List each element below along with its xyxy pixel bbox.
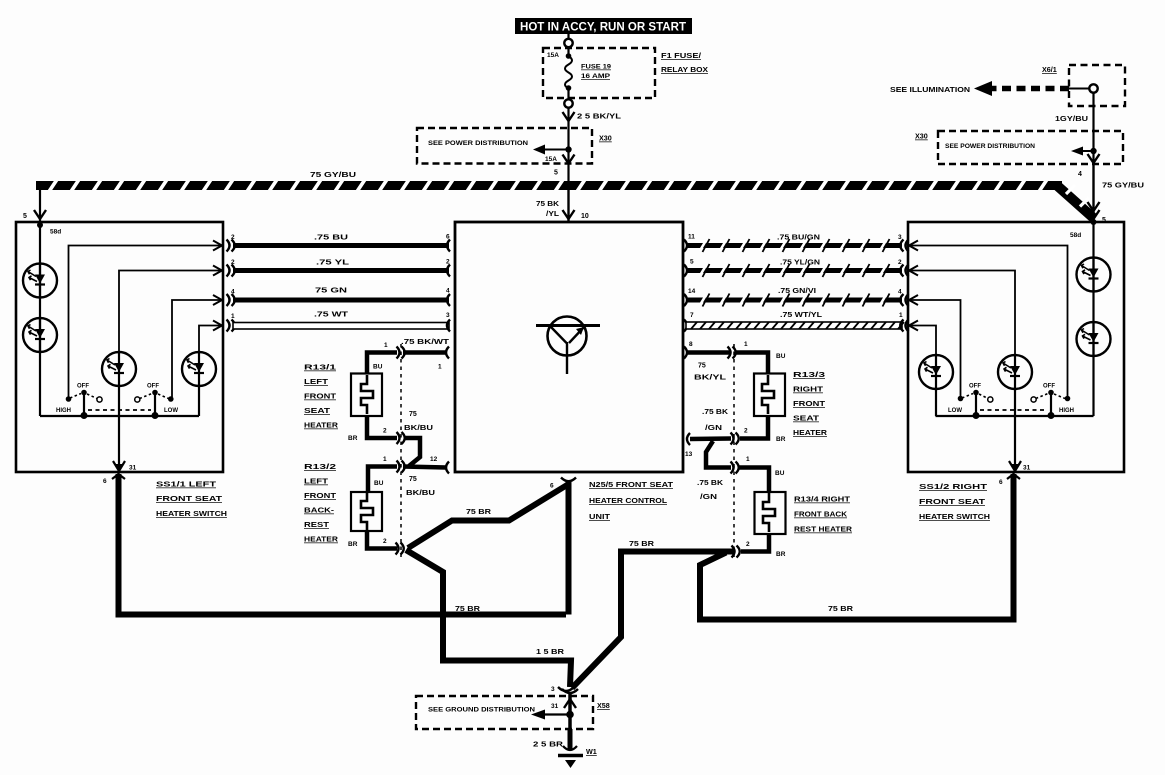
wire left lamp bottom right box: [935, 389, 937, 416]
svg-text:6: 6: [999, 479, 1003, 486]
svg-text:75: 75: [698, 363, 706, 370]
svg-text:1: 1: [438, 364, 442, 371]
lamp right 4 (center): [998, 355, 1032, 389]
svg-text:5: 5: [23, 213, 27, 220]
ground wire 2 5 BR: [568, 729, 573, 750]
wire R13/2 pin1: [368, 461, 405, 493]
svg-text:31: 31: [1023, 465, 1031, 472]
connector X30 right power distribution box (dashed): [938, 131, 1123, 164]
svg-text:75 BR: 75 BR: [629, 541, 654, 548]
svg-text:HIGH: HIGH: [56, 408, 71, 414]
wire R13/3 pin2 to N25/5 pin13: [687, 416, 768, 445]
svg-text:BU: BU: [373, 364, 383, 371]
svg-text:2: 2: [744, 428, 748, 435]
wire N25/5 pin1 to R13/1 pin1 (.75 BK/WT): [367, 347, 449, 375]
ground wire: R13/2 pin2 to ground connector (1 5 BR): [406, 550, 571, 687]
svg-text:.75 WT: .75 WT: [314, 312, 349, 319]
svg-text:HEATER SWITCH: HEATER SWITCH: [919, 514, 990, 521]
svg-text:75: 75: [409, 411, 417, 418]
switch SS1/2 box: [908, 222, 1124, 472]
lamp left 4: [182, 352, 216, 386]
switch HIGH-OFF right: [1031, 390, 1070, 419]
node in X6/1: [1069, 84, 1098, 92]
svg-text:FRONT SEAT: FRONT SEAT: [919, 499, 986, 506]
svg-text:75 BR: 75 BR: [466, 509, 491, 516]
svg-text:1: 1: [383, 456, 387, 463]
svg-text:3: 3: [551, 686, 555, 693]
svg-text:BACK-: BACK-: [304, 508, 335, 515]
svg-text:X58: X58: [597, 701, 610, 710]
wire: main feed vertical, right: [1092, 222, 1094, 416]
svg-text:2: 2: [231, 259, 235, 266]
svg-text:X30: X30: [915, 132, 928, 141]
svg-text:/YL: /YL: [546, 211, 560, 218]
transistor symbol in N25/5: [536, 317, 600, 375]
ground wire: N25/5 pin6 vertical: [561, 478, 576, 615]
svg-text:75 GY/BU: 75 GY/BU: [310, 172, 356, 179]
ground wire: SS1/2 pin6 down and across (75 BR): [700, 474, 1014, 620]
svg-text:BK/YL: BK/YL: [694, 375, 727, 382]
svg-text:3: 3: [898, 234, 902, 241]
svg-text:OFF: OFF: [1043, 384, 1055, 390]
label R13/4 RIGHT FRONT BACK REST HEATER: [794, 497, 852, 534]
svg-text:6: 6: [446, 234, 450, 241]
svg-text:BR: BR: [776, 551, 786, 558]
svg-text:31: 31: [129, 465, 137, 472]
svg-text:12: 12: [430, 456, 438, 463]
svg-text:5: 5: [554, 170, 558, 177]
wire .75 GN (SS1/1 pin4 to N25/5 pin4): [213, 294, 450, 306]
wire: bottom common rail right: [936, 415, 1094, 417]
switch HIGH-OFF: [66, 390, 102, 419]
svg-text:75 BR: 75 BR: [455, 606, 480, 613]
svg-text:HEATER: HEATER: [304, 423, 338, 430]
node: splice in X30 with arrow: [533, 128, 572, 163]
svg-text:.75 GN/VI: .75 GN/VI: [778, 288, 816, 295]
svg-text:2: 2: [383, 538, 387, 545]
mechanical link dashed right: [980, 409, 1047, 411]
svg-text:HOT IN ACCY, RUN OR START: HOT IN ACCY, RUN OR START: [520, 20, 687, 34]
ground connector node 3 above X58: [558, 687, 578, 693]
wire N25/5 pin8 to R13/3 pin1 (.75 BK/YL): [684, 347, 768, 375]
svg-text:.75 BK: .75 BK: [697, 480, 723, 487]
wire .75 BU/GN (N25/5 pin11 to SS1/2 pin3): [684, 240, 918, 252]
svg-text:RELAY BOX: RELAY BOX: [661, 65, 708, 74]
ground wire: R13/4 pin2 to ground connector (75 BR): [572, 552, 735, 689]
wire fuse output 2.5 BK/YL: [564, 90, 572, 128]
svg-text:R13/3: R13/3: [793, 372, 825, 379]
svg-text:RIGHT: RIGHT: [793, 387, 824, 394]
lamp left 3 (center): [102, 352, 136, 386]
node splice in X58 with arrow: [531, 694, 576, 729]
svg-text:LOW: LOW: [948, 408, 962, 414]
wire R13/1 pin2 to N25/5 pin12 (.75 BK/BU): [403, 438, 449, 474]
svg-text:REST: REST: [304, 522, 330, 529]
svg-text:FRONT: FRONT: [793, 401, 826, 408]
svg-text:8: 8: [689, 341, 693, 348]
svg-text:REST HEATER: REST HEATER: [794, 527, 852, 534]
svg-text:2 5 BK/YL: 2 5 BK/YL: [577, 114, 622, 121]
svg-text:SEE POWER DISTRIBUTION: SEE POWER DISTRIBUTION: [945, 143, 1036, 150]
wire R13/1 pin2: [367, 416, 405, 444]
wire R13/2 pin2: [367, 531, 404, 555]
svg-text:FRONT BACK: FRONT BACK: [794, 512, 847, 519]
wire .75 GN/VI (N25/5 pin14 to SS1/2 pin4): [684, 294, 918, 306]
pin 31 arrow SS1/2: [1009, 461, 1021, 472]
ground distribution box X58 (dashed): [416, 696, 593, 729]
resistor R13/4 right front backrest heater: [755, 492, 786, 534]
mechanical link dashed: [88, 409, 151, 411]
svg-text:1: 1: [744, 341, 748, 348]
svg-text:11: 11: [688, 234, 695, 241]
svg-text:LEFT: LEFT: [304, 379, 329, 386]
lamp right 2: [1077, 322, 1111, 356]
svg-text:1: 1: [384, 342, 388, 349]
svg-text:LOW: LOW: [164, 408, 178, 414]
title bar HOT IN ACCY, RUN OR START: [515, 18, 692, 34]
wire .75 WT hollow (SS1/1 pin1 to N25/5 pin3): [213, 320, 450, 332]
wire .75 WT/YL hatched hollow (N25/5 pin7 to SS1/2 pin1): [684, 320, 918, 332]
svg-text:N25/5 FRONT SEAT: N25/5 FRONT SEAT: [589, 482, 674, 489]
svg-text:75 BK: 75 BK: [536, 201, 559, 208]
svg-text:SS1/1 LEFT: SS1/1 LEFT: [156, 482, 217, 489]
svg-text:13: 13: [685, 451, 693, 458]
svg-text:F1 FUSE/: F1 FUSE/: [661, 51, 701, 60]
svg-text:4: 4: [1078, 171, 1082, 178]
svg-text:58d: 58d: [1070, 232, 1081, 239]
svg-text:SEE GROUND DISTRIBUTION: SEE GROUND DISTRIBUTION: [428, 707, 535, 714]
switch LOW-OFF: [135, 390, 174, 419]
wire: bottom common rail left: [40, 415, 199, 417]
svg-text:1: 1: [899, 312, 903, 319]
svg-text:14: 14: [688, 288, 696, 295]
lamp left 2: [23, 318, 57, 352]
svg-text:.75 BU/GN: .75 BU/GN: [777, 235, 820, 242]
svg-text:UNIT: UNIT: [589, 514, 611, 521]
svg-text:HEATER CONTROL: HEATER CONTROL: [589, 498, 668, 505]
svg-text:FRONT SEAT: FRONT SEAT: [156, 496, 223, 503]
svg-text:1: 1: [746, 456, 750, 463]
svg-text:BU: BU: [776, 353, 786, 360]
svg-text:.75 BK/WT: .75 BK/WT: [401, 339, 450, 346]
wire center lamp to pin 31 right: [1014, 390, 1016, 465]
svg-text:2: 2: [383, 428, 387, 435]
wire pin4 to LOW contact: [172, 300, 222, 397]
wire pin3 to HIGH contact right: [908, 246, 1068, 397]
svg-text:X6/1: X6/1: [1042, 65, 1057, 74]
svg-text:75 GN: 75 GN: [315, 288, 347, 295]
svg-text:OFF: OFF: [969, 384, 981, 390]
svg-text:1 5 BR: 1 5 BR: [536, 649, 564, 656]
svg-text:31: 31: [551, 703, 559, 710]
resistor R13/1 left front seat heater: [351, 374, 382, 417]
wire R13/4 pin2: [732, 534, 770, 558]
wire right X30 to switch pin 5: [1088, 164, 1100, 225]
svg-text:W1: W1: [586, 747, 597, 756]
svg-text:2: 2: [231, 234, 235, 241]
dashed arrow SEE ILLUMINATION: [974, 81, 1069, 96]
ground symbol W1: [558, 746, 583, 768]
svg-text:75: 75: [409, 476, 417, 483]
svg-text:SEE ILLUMINATION: SEE ILLUMINATION: [890, 87, 970, 94]
svg-text:FRONT: FRONT: [304, 493, 337, 500]
wire pin2 to center lamp right: [908, 271, 1015, 356]
svg-text:6: 6: [103, 478, 107, 485]
svg-text:15A: 15A: [545, 156, 557, 163]
svg-text:OFF: OFF: [77, 384, 89, 390]
wire segment to bus, pin 5: [567, 163, 569, 182]
lamp right 1: [1077, 258, 1111, 292]
wire bus to control unit pin 10: [563, 190, 575, 222]
svg-text:HEATER: HEATER: [304, 537, 338, 544]
svg-text:4: 4: [231, 289, 235, 296]
svg-text:OFF: OFF: [147, 384, 159, 390]
svg-text:15A: 15A: [547, 52, 559, 59]
control unit N25/5 box: [455, 222, 683, 472]
svg-text:SEAT: SEAT: [304, 408, 331, 415]
svg-text:75 GY/BU: 75 GY/BU: [1102, 183, 1144, 190]
svg-text:4: 4: [446, 288, 450, 295]
wire from hot feed to fuse: [564, 34, 572, 54]
svg-text:FUSE 19: FUSE 19: [581, 64, 611, 71]
svg-text:6: 6: [550, 483, 554, 490]
resistor R13/2 left front backrest heater: [351, 492, 382, 531]
label R13/1 LEFT FRONT SEAT HEATER: [304, 365, 338, 430]
svg-text:BU: BU: [775, 470, 785, 477]
svg-text:5: 5: [690, 259, 694, 266]
svg-text:R13/1: R13/1: [304, 365, 336, 372]
lamp right 3 (left in box): [919, 355, 953, 389]
ground wire: pin6 fork to R13/2 pin2 (75 BR): [408, 485, 567, 548]
connector X30 power distribution box (dashed): [417, 128, 592, 164]
svg-text:R13/2: R13/2: [304, 464, 336, 471]
wire .75 BU (SS1/1 pin2 to N25/5 pin6): [213, 240, 450, 252]
lamp left 1: [23, 264, 57, 298]
wire center lamp to pin 31: [118, 386, 120, 465]
label R13/3 RIGHT FRONT SEAT HEATER: [793, 372, 827, 437]
resistor R13/3 right front seat heater: [754, 374, 785, 417]
svg-text:75 BR: 75 BR: [828, 606, 853, 613]
svg-text:2: 2: [446, 259, 450, 266]
fuse box F1 (dashed): [543, 48, 655, 98]
svg-text:BK/BU: BK/BU: [404, 425, 433, 432]
wire pin2 to HIGH contact: [69, 246, 223, 398]
svg-text:7: 7: [690, 312, 694, 319]
svg-text:BK/BU: BK/BU: [406, 490, 435, 497]
svg-text:BR: BR: [348, 435, 358, 442]
svg-text:16 AMP: 16 AMP: [581, 73, 611, 80]
ground wire: SS1/1 pin6 down and across (75 BR): [119, 474, 567, 615]
wire 1GY/BU: [1092, 93, 1094, 132]
wire pin13 branch to R13/4 pin1: [706, 441, 769, 492]
dashed connector line right: [733, 344, 735, 557]
svg-text:3: 3: [446, 312, 450, 319]
svg-text:BR: BR: [776, 436, 786, 443]
wire pin1 to right lamp: [199, 326, 222, 353]
svg-text:2: 2: [898, 259, 902, 266]
node splice in right X30 with arrow: [1071, 131, 1100, 164]
wire bus to left switch pin 5: [34, 186, 46, 228]
svg-text:X30: X30: [599, 134, 612, 143]
wire right lamp bottom to rail: [198, 386, 200, 416]
svg-text:1GY/BU: 1GY/BU: [1055, 116, 1088, 123]
switch SS1/1 box: [16, 222, 223, 472]
svg-text:.75 BU: .75 BU: [314, 235, 348, 242]
svg-text:HIGH: HIGH: [1059, 408, 1074, 414]
svg-text:.75 BK: .75 BK: [702, 409, 728, 416]
svg-text:.75 YL: .75 YL: [316, 260, 350, 267]
switch LOW-OFF right: [958, 390, 993, 419]
svg-text:SEAT: SEAT: [793, 416, 820, 423]
wire pin4 to LOW contact right: [908, 300, 961, 396]
svg-text:1: 1: [231, 313, 235, 320]
dashed connector line left: [400, 344, 402, 557]
svg-text:R13/4 RIGHT: R13/4 RIGHT: [794, 497, 851, 504]
wire pin2b to center lamp: [119, 271, 222, 353]
bus 75 GY/BU (hatched): [36, 181, 1062, 190]
svg-text:2 5 BR: 2 5 BR: [533, 742, 563, 749]
svg-text:4: 4: [898, 289, 902, 296]
svg-text:SEE POWER DISTRIBUTION: SEE POWER DISTRIBUTION: [428, 140, 528, 147]
svg-text:58d: 58d: [50, 229, 61, 236]
svg-text:BR: BR: [348, 541, 358, 548]
illumination connector X6/1 (dashed box): [1069, 65, 1125, 106]
svg-text:/GN: /GN: [705, 425, 722, 432]
fuse element symbol: [565, 53, 572, 91]
svg-text:2: 2: [746, 541, 750, 548]
svg-text:.75 YL/GN: .75 YL/GN: [780, 260, 820, 267]
svg-text:BU: BU: [374, 480, 384, 487]
svg-text:10: 10: [581, 213, 589, 220]
wire pin1 to left lamp right: [908, 326, 936, 356]
svg-text:HEATER: HEATER: [793, 430, 827, 437]
svg-text:.75 WT/YL: .75 WT/YL: [780, 312, 823, 319]
label R13/2 LEFT FRONT BACK-REST HEATER: [304, 464, 338, 544]
svg-text:FRONT: FRONT: [304, 394, 337, 401]
svg-text:/GN: /GN: [700, 494, 717, 501]
svg-text:LEFT: LEFT: [304, 479, 329, 486]
hatch ticks on right wires: [700, 241, 886, 306]
wire: main feed vertical, left: [39, 225, 41, 416]
pin 31 arrow SS1/1: [113, 461, 125, 472]
wire .75 YL (SS1/1 pin2 to N25/5 pin2): [213, 265, 450, 277]
svg-text:SS1/2 RIGHT: SS1/2 RIGHT: [919, 484, 988, 491]
svg-text:HEATER SWITCH: HEATER SWITCH: [156, 511, 227, 518]
wire .75 YL/GN (N25/5 pin5 to SS1/2 pin2): [684, 265, 918, 277]
